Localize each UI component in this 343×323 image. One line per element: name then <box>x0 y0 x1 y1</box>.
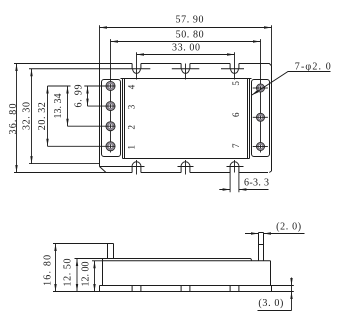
body inner edges <box>121 79 252 159</box>
dimension (2.0) <box>245 232 305 234</box>
svg-text:5: 5 <box>231 81 241 86</box>
pin 2 <box>106 122 115 131</box>
svg-text:4: 4 <box>127 84 137 89</box>
mounting slot bottom 3 <box>230 160 239 173</box>
dimension 32.30 <box>29 69 100 164</box>
mounting slot top 1 <box>132 52 141 79</box>
svg-text:33. 00: 33. 00 <box>172 43 200 54</box>
svg-text:6: 6 <box>231 112 241 117</box>
svg-text:2: 2 <box>127 125 137 130</box>
side pin left <box>108 244 114 259</box>
svg-text:36. 80: 36. 80 <box>8 104 19 135</box>
pin 5 <box>257 84 265 92</box>
dimension 36.80 <box>14 64 106 173</box>
svg-text:57. 90: 57. 90 <box>176 15 204 26</box>
svg-text:1: 1 <box>127 145 137 150</box>
dimension 57.90 <box>100 25 272 66</box>
terminal strip left <box>102 80 121 157</box>
mounting slot top 2 <box>181 64 190 80</box>
dimension 20.32 <box>46 86 48 146</box>
pin 4 <box>106 82 115 91</box>
body bottom edge segments <box>100 166 244 168</box>
pin tick lines right <box>253 88 268 147</box>
mounting slot bottom 2 <box>181 160 190 175</box>
dimension 16.80 <box>53 244 108 292</box>
pin 7 <box>257 143 265 151</box>
dimension 6-3.3 <box>219 173 268 193</box>
flange outline <box>100 64 272 173</box>
pin 1 <box>106 142 115 151</box>
svg-text:50. 80: 50. 80 <box>176 30 204 41</box>
svg-text:12. 50: 12. 50 <box>62 259 73 287</box>
dimension 12.50 <box>75 259 103 292</box>
svg-text:13. 34: 13. 34 <box>53 94 64 119</box>
svg-text:(3. 0): (3. 0) <box>258 298 283 309</box>
pin 3 <box>106 102 115 111</box>
dimension 6.99 <box>86 86 88 106</box>
leader 7-phi2.0 <box>252 72 331 96</box>
pin 6 <box>257 113 265 121</box>
pin extension lines left <box>48 86 116 146</box>
svg-text:20. 32: 20. 32 <box>37 102 48 130</box>
dimension 12.00 <box>92 261 103 292</box>
svg-text:6. 99: 6. 99 <box>74 85 85 108</box>
dimension (3.0) <box>258 278 294 311</box>
side pin right <box>259 233 264 261</box>
mounting slot top 3 <box>230 52 239 79</box>
svg-text:6-3. 3: 6-3. 3 <box>244 178 269 189</box>
dimension 33.00 <box>137 53 235 55</box>
svg-text:32. 30: 32. 30 <box>22 102 33 130</box>
svg-text:7-φ2. 0: 7-φ2. 0 <box>295 62 331 73</box>
dimension 50.80 <box>111 40 261 42</box>
svg-text:7: 7 <box>231 143 241 148</box>
svg-text:(2. 0): (2. 0) <box>276 222 301 233</box>
svg-text:12. 00: 12. 00 <box>80 262 91 287</box>
terminal strip right <box>252 80 270 157</box>
dimension 13.34 <box>66 86 68 126</box>
body top edge line <box>29 68 244 70</box>
pin centerline right column <box>260 39 262 152</box>
svg-text:3: 3 <box>127 104 137 109</box>
mounting slot bottom 1 <box>132 160 141 175</box>
svg-text:16. 80: 16. 80 <box>42 255 53 286</box>
pin centerline left column <box>110 39 112 152</box>
side baseplate <box>100 286 272 292</box>
side body outline <box>103 259 271 286</box>
